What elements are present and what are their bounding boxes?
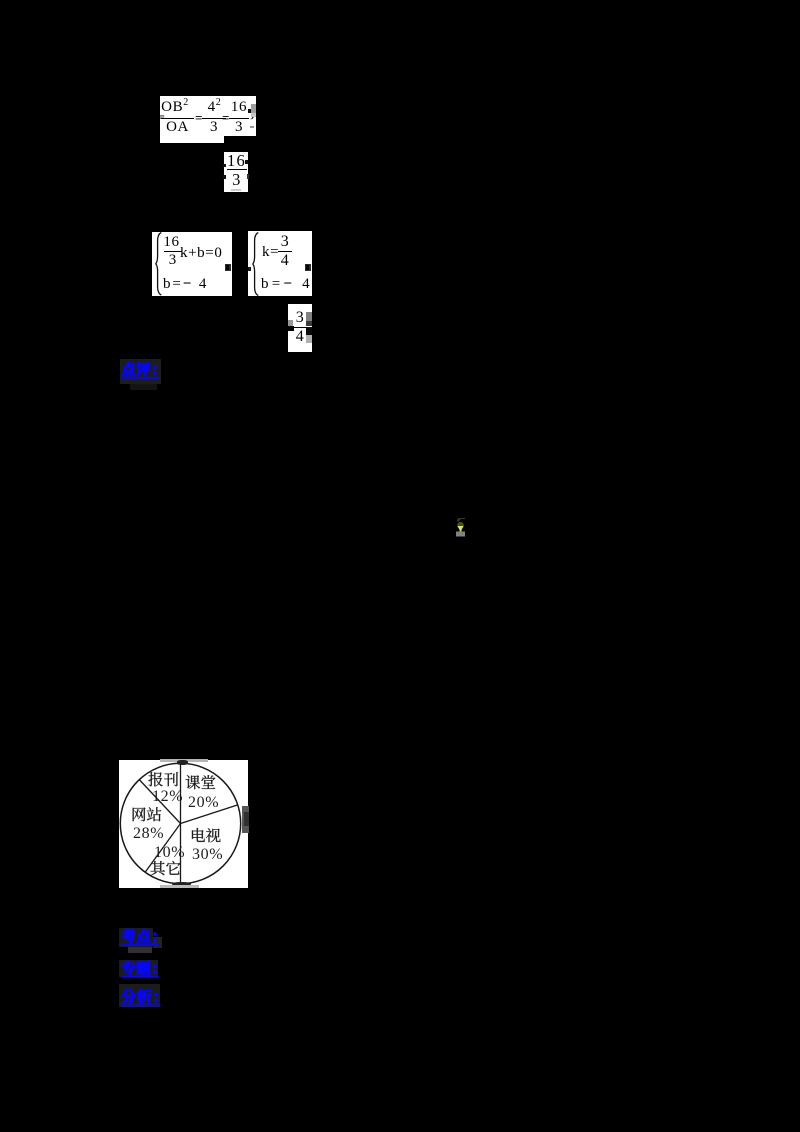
pie circle <box>120 763 240 883</box>
dark comma artifact 2 <box>305 264 311 271</box>
label dianshi <box>187 825 224 849</box>
smudge at top of pie <box>160 759 208 762</box>
lightbulb icon <box>453 516 469 538</box>
pie chart panel <box>119 760 248 888</box>
fraction 16/3 <box>224 152 248 192</box>
label qita <box>147 858 184 882</box>
label ketang <box>182 772 219 796</box>
label 30% <box>192 846 223 864</box>
link background zhuanti <box>119 960 158 977</box>
label wangzhan <box>128 804 165 828</box>
label 12% <box>152 788 183 806</box>
gray blob at right edge of pie panel <box>242 806 249 833</box>
blue link dianping <box>118 359 162 383</box>
brace of system 2 <box>252 232 259 296</box>
tiny dot left of system2 <box>248 267 251 271</box>
smudge at bottom of pie <box>172 882 191 886</box>
blue link zhuanti <box>118 958 162 982</box>
system of equations 2 panel <box>248 231 312 296</box>
equation A: =OB^2/OA=4^2/3=16/3, <box>156 96 260 143</box>
system of equations 1 panel <box>152 232 232 296</box>
pie sector lines <box>139 763 237 883</box>
label 10% <box>154 844 185 862</box>
dark comma artifact 1 <box>225 264 231 271</box>
label 28% <box>133 825 164 843</box>
link background dianping <box>120 359 161 384</box>
dark nub right of 16/3 <box>247 174 250 179</box>
link background kaodian <box>119 928 153 947</box>
label 20% <box>188 794 219 812</box>
fraction 3/4 panel <box>288 304 312 352</box>
JPEG artifacts around 3/4 <box>287 326 294 331</box>
link background fenxi <box>119 984 160 1008</box>
artifacts right of equation A <box>251 104 257 114</box>
blue link fenxi <box>118 986 164 1010</box>
brace of system 1 <box>155 232 162 296</box>
left-edge nubs of 16/3 block <box>223 164 226 167</box>
equation block A white panels <box>160 96 224 143</box>
blue link kaodian <box>118 926 162 950</box>
label baokan <box>145 769 182 793</box>
